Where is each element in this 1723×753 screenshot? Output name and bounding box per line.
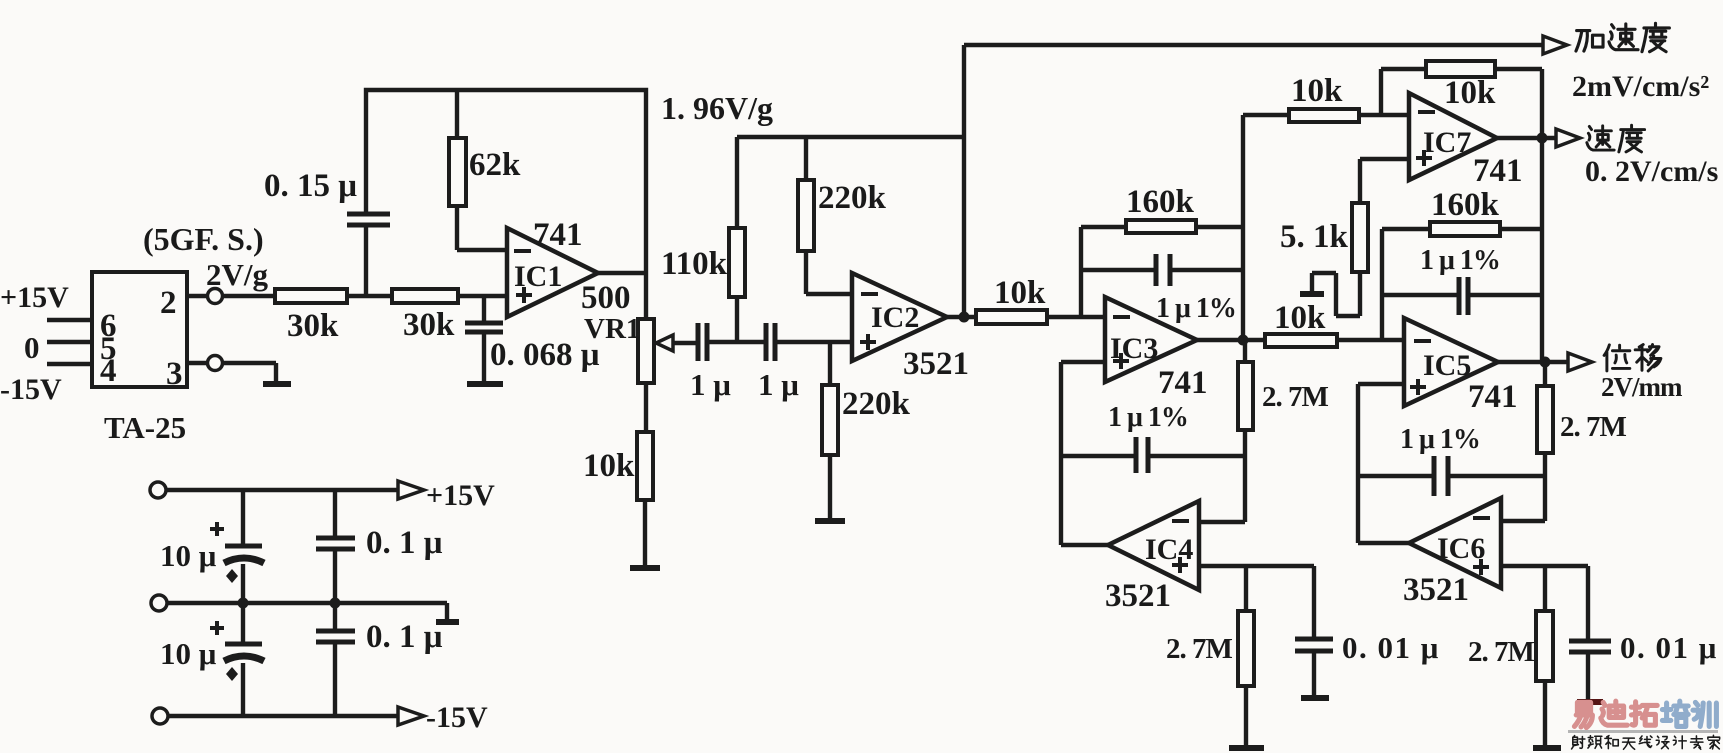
svg-text:(5GF. S.): (5GF. S.)	[143, 221, 264, 257]
svg-text:5. 1k: 5. 1k	[1280, 219, 1349, 255]
svg-text:IC2: IC2	[871, 301, 919, 334]
svg-text:1 μ: 1 μ	[690, 367, 731, 402]
svg-text:1 μ 1%: 1 μ 1%	[1420, 245, 1500, 276]
svg-text:IC7: IC7	[1423, 126, 1471, 159]
svg-text:1 μ: 1 μ	[758, 367, 799, 402]
svg-text:10 μ: 10 μ	[160, 538, 217, 573]
svg-text:4: 4	[100, 353, 117, 389]
svg-text:1. 96V/g: 1. 96V/g	[661, 90, 773, 126]
svg-text:2. 7M: 2. 7M	[1468, 636, 1535, 668]
svg-text:0. 1 μ: 0. 1 μ	[366, 525, 443, 561]
svg-text:1 μ 1%: 1 μ 1%	[1400, 424, 1480, 455]
svg-text:500: 500	[581, 280, 631, 316]
svg-text:110k: 110k	[661, 246, 728, 282]
svg-text:TA-25: TA-25	[104, 410, 186, 445]
svg-text:10k: 10k	[1444, 75, 1496, 111]
svg-text:3521: 3521	[1105, 578, 1171, 614]
svg-text:1 μ 1%: 1 μ 1%	[1108, 402, 1188, 433]
svg-text:2. 7M: 2. 7M	[1262, 381, 1329, 413]
svg-text:741: 741	[1158, 365, 1208, 401]
svg-text:10k: 10k	[1291, 73, 1343, 109]
svg-text:0. 068 μ: 0. 068 μ	[490, 337, 600, 373]
svg-text:2. 7M: 2. 7M	[1560, 411, 1627, 443]
svg-text:741: 741	[533, 217, 583, 253]
svg-text:0: 0	[24, 330, 40, 365]
svg-text:2mV/cm/s²: 2mV/cm/s²	[1572, 70, 1709, 103]
svg-text:220k: 220k	[842, 386, 911, 422]
svg-text:0. 15 μ: 0. 15 μ	[264, 168, 357, 204]
svg-text:+15V: +15V	[426, 479, 495, 512]
svg-text:160k: 160k	[1126, 184, 1195, 220]
svg-text:+15V: +15V	[0, 281, 69, 314]
svg-text:0. 01 μ: 0. 01 μ	[1342, 630, 1440, 665]
svg-text:IC6: IC6	[1437, 532, 1485, 565]
svg-text:IC1: IC1	[514, 260, 562, 293]
svg-text:IC5: IC5	[1423, 349, 1471, 382]
svg-text:IC4: IC4	[1145, 533, 1193, 566]
svg-text:741: 741	[1473, 153, 1523, 189]
svg-text:741: 741	[1468, 379, 1518, 415]
svg-text:2. 7M: 2. 7M	[1166, 633, 1233, 665]
svg-text:2V/g: 2V/g	[206, 257, 269, 292]
svg-text:3521: 3521	[903, 346, 969, 382]
svg-text:0. 01 μ: 0. 01 μ	[1620, 630, 1718, 665]
svg-text:3: 3	[166, 356, 183, 392]
svg-text:IC3: IC3	[1110, 332, 1158, 365]
svg-text:10k: 10k	[583, 448, 635, 484]
svg-text:160k: 160k	[1431, 187, 1500, 223]
svg-text:220k: 220k	[818, 180, 887, 216]
svg-text:3521: 3521	[1403, 572, 1469, 608]
svg-text:10k: 10k	[994, 275, 1046, 311]
svg-text:30k: 30k	[287, 308, 339, 344]
svg-text:62k: 62k	[469, 147, 521, 183]
svg-text:10 μ: 10 μ	[160, 636, 217, 671]
svg-text:2: 2	[160, 285, 177, 321]
svg-text:30k: 30k	[403, 307, 455, 343]
svg-text:0. 2V/cm/s: 0. 2V/cm/s	[1585, 155, 1718, 188]
svg-text:-15V: -15V	[0, 373, 62, 406]
svg-text:2V/mm: 2V/mm	[1601, 372, 1683, 402]
svg-text:0. 1 μ: 0. 1 μ	[366, 619, 443, 655]
svg-text:10k: 10k	[1274, 300, 1326, 336]
svg-text:-15V: -15V	[426, 701, 488, 734]
svg-text:1 μ 1%: 1 μ 1%	[1156, 293, 1236, 324]
